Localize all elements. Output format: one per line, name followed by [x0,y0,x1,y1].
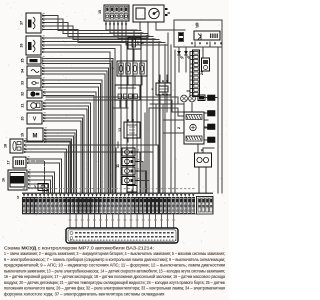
svg-text:5: 5 [141,42,145,44]
svg-text:форсунка холостого хода; 37 –: форсунка холостого хода; 37 – электродви… [4,291,164,296]
svg-text:1 – свеча зажигания; 2 – модул: 1 – свеча зажигания; 2 – модуль зажигани… [4,251,225,256]
svg-text:воздуха; 20 – датчик детонации: воздуха; 20 – датчик детонации; 21 – дат… [4,280,225,285]
svg-text:7: 7 [111,67,115,69]
svg-text:положения коленчатого вала; 26: положения коленчатого вала; 26 – датчик … [4,286,225,291]
svg-text:18: 18 [4,144,8,148]
svg-text:8: 8 [167,12,171,14]
svg-text:16: 16 [2,178,6,182]
svg-text:Схема МСУД с контроллером МР7.: Схема МСУД с контроллером МР7.0 автомоби… [4,245,154,250]
svg-text:16: 16 [16,195,20,199]
svg-text:37: 37 [20,21,24,25]
svg-text:11: 11 [116,164,120,168]
svg-text:13: 13 [118,128,122,132]
svg-text:15: 15 [98,10,102,14]
svg-text:12: 12 [33,185,37,189]
svg-text:F: F [201,149,203,153]
svg-text:20: 20 [21,117,25,121]
svg-text:17: 17 [7,161,11,165]
svg-text:30: 30 [186,89,190,93]
svg-text:16 – датчик неровной дороги; 1: 16 – датчик неровной дороги; 17 – датчик… [4,274,226,279]
svg-text:32: 32 [21,92,25,96]
svg-text:24: 24 [200,71,204,75]
svg-text:21: 21 [21,104,25,108]
svg-text:6 – электробензонасос; 7 – пан: 6 – электробензонасос; 7 – панель прибор… [4,257,225,262]
svg-text:26: 26 [20,44,24,48]
svg-text:19: 19 [21,133,25,137]
svg-text:2: 2 [177,127,181,129]
svg-text:предохранителей; 9 – АПС; 10 –: предохранителей; 9 – АПС; 10 – индикатор… [4,263,225,268]
svg-text:25: 25 [21,59,25,63]
svg-text:выключателя зажигания; 13 – ре: выключателя зажигания; 13 – реле электро… [4,268,225,273]
svg-text:33: 33 [21,81,25,85]
svg-text:34: 34 [21,69,25,73]
svg-text:M: M [33,133,38,139]
